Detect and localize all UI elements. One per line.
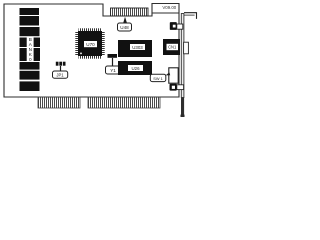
RAM bank right column — [34, 38, 40, 48]
VGA controller QFP U70 pins top — [79, 28, 102, 31]
VGA controller QFP U70 body — [78, 31, 102, 56]
QFP U70 label — [84, 41, 97, 47]
RAM chip E — [20, 71, 40, 80]
svg-text:JP1: JP1 — [56, 73, 64, 78]
bracket hook — [184, 13, 197, 19]
svg-text:0: 0 — [29, 57, 32, 62]
RAM chip F — [20, 81, 40, 91]
svg-text:U303: U303 — [132, 45, 143, 50]
crystal Y1 label — [106, 66, 121, 74]
svg-text:U26: U26 — [131, 66, 140, 71]
svg-text:Y1: Y1 — [110, 68, 116, 73]
version box V09.00 — [152, 12, 179, 14]
chip U26 — [118, 61, 152, 75]
bracket bar — [181, 14, 184, 98]
connector CN1 body — [163, 39, 180, 55]
svg-text:CN1: CN1 — [168, 45, 177, 50]
ISA edge connector segment 2 — [88, 97, 160, 108]
bracket foot — [181, 115, 185, 117]
jumper JP1 pins — [56, 62, 59, 66]
RCA jack top bracket part — [177, 24, 183, 29]
QFP pin1 dot — [80, 53, 82, 55]
BANK 0 vertical label — [29, 37, 33, 62]
RCA jack bottom bracket part — [177, 85, 184, 90]
chip U303 — [118, 40, 152, 57]
svg-text:V09.00: V09.00 — [162, 5, 176, 10]
jumper callout stem — [60, 66, 62, 71]
callout U48 pointer — [123, 17, 127, 24]
chip U26 label — [128, 65, 143, 71]
RAM chip A — [20, 8, 40, 15]
svg-text:U70: U70 — [86, 42, 95, 47]
RAM chip D — [20, 62, 40, 70]
jumper JP1 label — [53, 71, 68, 78]
chip U303 label — [130, 44, 145, 50]
board outline — [4, 4, 179, 98]
crystal Y1 — [108, 54, 118, 58]
VGA controller QFP U70 pins right — [102, 32, 105, 56]
callout U48 label — [118, 23, 132, 31]
feature connector J1 (top, hatched) — [111, 8, 149, 16]
GAME label pointer — [166, 72, 171, 75]
svg-text:SW 1: SW 1 — [153, 76, 163, 81]
RCA jack bottom — [170, 84, 177, 91]
crystal callout stem — [112, 58, 114, 66]
VGA controller QFP U70 pins left — [75, 32, 78, 56]
ISA edge connector segment 1 — [38, 97, 80, 108]
connector CN1 bracket part — [184, 42, 189, 54]
VGA controller QFP U70 pins bottom — [79, 56, 102, 59]
connector CN1 label — [167, 44, 179, 50]
RAM chip B — [20, 16, 40, 26]
connector DB9 (white) — [169, 68, 178, 83]
RCA jack top — [170, 22, 177, 30]
GAME label — [150, 74, 166, 81]
RAM bank left column — [20, 38, 27, 48]
svg-text:U48: U48 — [120, 25, 129, 30]
RAM chip C — [20, 27, 40, 36]
